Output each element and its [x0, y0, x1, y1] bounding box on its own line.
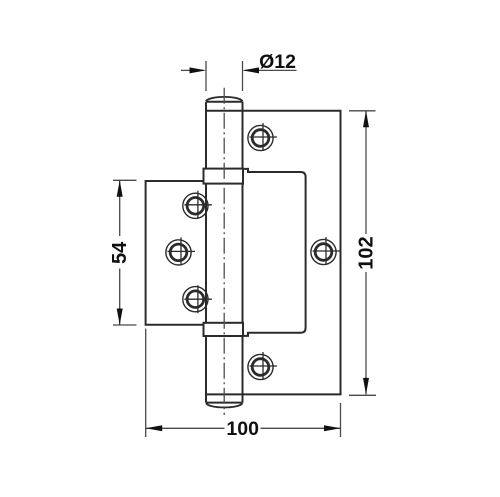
- svg-text:54: 54: [109, 241, 131, 264]
- dim102 up arrowhead: [363, 111, 369, 128]
- dia12 left leader line: [181, 69, 204, 71]
- dia12 right leader line: [245, 69, 297, 71]
- recess notch in right plate: [243, 169, 306, 336]
- left plate (door wing) outline: [146, 181, 204, 325]
- right plate left edge segments: [242, 102, 244, 395]
- svg-text:102: 102: [356, 236, 378, 269]
- dim54 up arrowhead: [117, 180, 123, 197]
- screw hole left-plate top: [183, 191, 212, 219]
- dia12 right arrowhead: [243, 67, 260, 73]
- dim102 dimension line: [365, 111, 367, 395]
- pin centerline (dash-dot): [223, 88, 225, 415]
- dim100 extension lines: [146, 329, 341, 438]
- svg-text:Ø12: Ø12: [259, 51, 296, 73]
- screw hole left-plate bottom: [183, 285, 212, 313]
- dia12 dimension extension lines: [206, 61, 243, 91]
- pin barrel mid section: [205, 184, 207, 323]
- dia12 left arrowhead: [190, 67, 207, 73]
- screw hole left-plate middle: [166, 237, 195, 265]
- dim54 extension ticks: [113, 180, 137, 325]
- pin barrel top section: [206, 102, 243, 169]
- dim54 down arrowhead: [117, 309, 123, 326]
- bottom knuckle collar: [204, 323, 244, 336]
- dim102 down arrowhead: [363, 378, 369, 395]
- pin top dome cap: [206, 97, 243, 101]
- pin bottom dome cap: [206, 403, 243, 407]
- dim100 left arrowhead: [146, 425, 163, 431]
- screw hole right-plate middle: [311, 237, 340, 265]
- dim102 extension ticks: [349, 111, 376, 396]
- svg-text:100: 100: [226, 418, 259, 440]
- dim100 right arrowhead: [324, 425, 341, 431]
- screw hole right-plate top: [248, 123, 277, 151]
- top knuckle collar: [204, 169, 244, 184]
- screw hole right-plate bottom: [248, 352, 277, 380]
- dim54 dimension line: [119, 180, 121, 325]
- pin barrel bottom section: [206, 336, 243, 403]
- dim100 dimension line: [146, 427, 341, 429]
- right plate (frame wing) outline: [206, 111, 341, 395]
